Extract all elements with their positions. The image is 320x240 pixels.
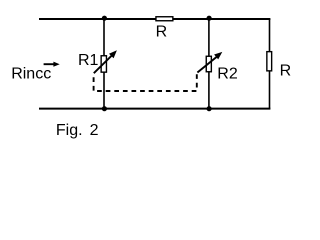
- resistor R1 (variable): [78, 50, 117, 73]
- wire R1 branch vertical: [103, 19, 105, 109]
- wire bottom horizontal: [39, 108, 270, 110]
- svg-text:R: R: [280, 63, 292, 80]
- svg-text:R1: R1: [78, 52, 99, 69]
- node top-right junction: [207, 16, 212, 21]
- resistor R (top): [156, 17, 173, 41]
- resistor R2 (variable): [197, 52, 237, 82]
- node bottom-right junction: [207, 106, 212, 111]
- svg-text:2: 2: [90, 122, 99, 139]
- node top-left junction: [102, 16, 107, 21]
- label Rincc with arrow: [11, 62, 60, 83]
- resistor R (right): [267, 52, 291, 80]
- wire dashed gang coupling R1-R2: [94, 74, 197, 91]
- wire top horizontal: [39, 18, 270, 20]
- wire right vertical: [269, 19, 271, 109]
- svg-text:Fig.: Fig.: [56, 122, 83, 139]
- node bottom-left junction: [102, 106, 107, 111]
- svg-text:R2: R2: [217, 65, 238, 82]
- svg-text:Rincc: Rincc: [11, 65, 51, 82]
- svg-text:R: R: [156, 23, 168, 40]
- wire R2 branch vertical: [208, 19, 210, 109]
